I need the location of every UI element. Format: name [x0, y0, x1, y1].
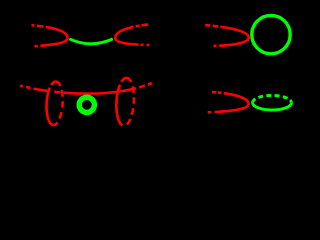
long red dashed strand	[20, 83, 152, 94]
red strand (opens left)	[205, 25, 249, 46]
red strand right (opens right)	[115, 24, 149, 45]
red meridian ellipse right (back half)	[124, 78, 136, 126]
red strand left (opens left)	[32, 25, 68, 46]
green ellipse bottom half (solid front)	[253, 103, 292, 110]
red meridian ellipse right (front half)	[115, 77, 127, 125]
red strand (opens left)	[208, 92, 249, 113]
red meridian ellipse left (back half)	[53, 82, 64, 126]
green circle	[252, 15, 290, 53]
green ellipse top half (dashed back)	[253, 95, 292, 102]
green ring	[79, 97, 94, 112]
red meridian ellipse left (front half)	[45, 81, 56, 125]
green band core arc	[69, 39, 113, 44]
